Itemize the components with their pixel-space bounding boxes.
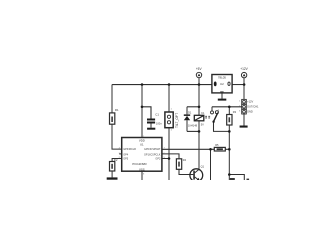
wire +5V symbol drop (198, 78, 200, 107)
ground bar below connector (240, 126, 248, 128)
wire connector gnd (243, 114, 245, 126)
connector TILT_OPT (165, 108, 179, 131)
resistor R2 (110, 158, 118, 171)
svg-text:D1: D1 (188, 111, 192, 115)
voltage regulator U2 78L05 (212, 75, 232, 93)
wire diode bottom lead (186, 120, 188, 131)
IC U1 PIC12F683 (119, 136, 166, 176)
wire C1 to ground (150, 124, 152, 128)
wire R4 to Q1 base (179, 169, 193, 174)
resistor R4 (176, 158, 186, 169)
supply +12V (240, 67, 248, 78)
svg-text:C1: C1 (155, 113, 159, 117)
svg-text:VSS: VSS (139, 167, 145, 171)
svg-text:R4: R4 (183, 158, 187, 162)
svg-text:Q1: Q1 (201, 165, 205, 169)
wire U1 pin7 to R5 (162, 148, 214, 150)
svg-text:R1: R1 (115, 108, 119, 112)
supply +5V (196, 67, 203, 78)
svg-text:R2: R2 (114, 158, 118, 162)
svg-text:GP4: GP4 (123, 154, 129, 157)
svg-text:U2: U2 (220, 82, 224, 86)
resistor R5 (214, 143, 225, 151)
svg-text:GP3/MCLR: GP3/MCLR (123, 148, 136, 151)
svg-text:TILT_OPT: TILT_OPT (175, 113, 179, 128)
svg-text:GP5: GP5 (123, 158, 129, 161)
wire OUT line (212, 106, 242, 108)
wire R3 column (228, 107, 230, 115)
wire VDD column (141, 85, 143, 138)
relay coil K1 (194, 111, 205, 126)
wire regulator gnd (221, 93, 223, 99)
wire coil bottom to collector (187, 130, 199, 132)
bottom cut component smudges (230, 178, 249, 180)
svg-text:OUT/CH1: OUT/CH1 (247, 105, 259, 109)
wire rail to R1 (111, 85, 113, 113)
wire C1 branch (142, 107, 151, 119)
transistor Q1 (190, 165, 205, 182)
svg-text:GND: GND (247, 110, 253, 114)
wire TILT_OPT to U1 pin GP2 (168, 128, 170, 180)
relay contact (205, 110, 219, 123)
wire coil feed (187, 106, 199, 108)
wire R5 right (225, 148, 229, 150)
svg-text:+12V: +12V (247, 99, 253, 103)
wire R2 to ground (111, 171, 113, 177)
ground bar below R2 (107, 177, 118, 179)
svg-text:100n: 100n (156, 121, 162, 125)
svg-text:K1: K1 (201, 111, 205, 115)
wire +5V rail (112, 84, 212, 86)
wire contact throw (211, 107, 213, 111)
resistor R1 (110, 108, 119, 124)
wire +12V symbol drop (243, 78, 245, 100)
wire diode top lead (186, 107, 188, 115)
ground bar below C1 (147, 128, 155, 130)
diode D1 (184, 111, 198, 128)
svg-text:GP2: GP2 (155, 158, 161, 161)
wire R3 bottom column (228, 125, 230, 180)
svg-text:5V: 5V (201, 122, 204, 126)
wire U1 VSS (141, 171, 143, 180)
resistor R3 (227, 110, 237, 125)
connector X1 (239, 99, 259, 114)
wire +12V to regulator input (232, 84, 244, 86)
svg-text:78L05: 78L05 (218, 76, 226, 80)
wire rail to TILT_OPT (168, 85, 170, 112)
svg-text:PIC12F683: PIC12F683 (132, 162, 147, 166)
junction dots (141, 83, 246, 176)
svg-text:R3: R3 (233, 110, 237, 114)
wire U1 pin5 stub (162, 158, 169, 160)
capacitor C1 (147, 113, 162, 126)
wire bottom right branch (229, 175, 244, 181)
svg-text:R5: R5 (215, 143, 219, 147)
ground bar below U2 (218, 99, 227, 101)
svg-text:GP1/ICSPCLK: GP1/ICSPCLK (144, 154, 161, 157)
svg-text:+12V: +12V (240, 67, 248, 71)
wire U1 pin6 to R4 (162, 154, 179, 159)
wire contact common (214, 122, 230, 131)
svg-text:U1: U1 (140, 143, 144, 147)
wire U1 pin GP5 to R2 (112, 159, 122, 162)
wire coil bottom lead (198, 121, 200, 132)
wire U1 pin2 stub (119, 153, 122, 155)
svg-text:1N4148: 1N4148 (188, 123, 198, 127)
svg-text:GP0/ICSPDAT: GP0/ICSPDAT (144, 148, 161, 151)
wire R1 to U1 pin GP3/MCLR (112, 124, 122, 149)
wire branch down from R5 line (210, 149, 212, 180)
wire coil top lead (198, 107, 200, 116)
wire Q1 collector (198, 131, 200, 169)
svg-text:+5V: +5V (196, 67, 203, 71)
